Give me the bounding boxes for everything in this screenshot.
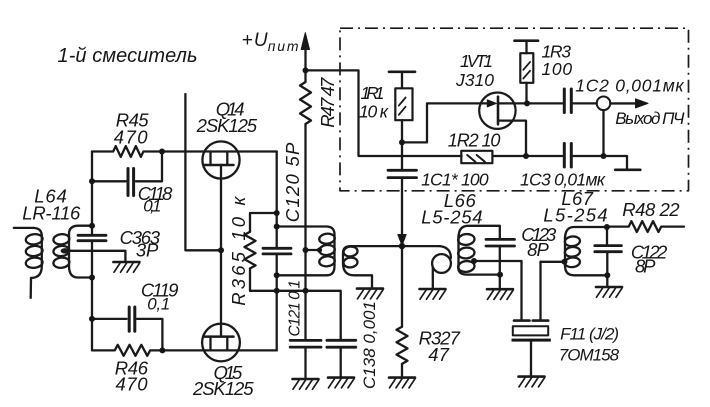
svg-text:1-й смеситель: 1-й смеситель (58, 45, 198, 67)
capacitor 1C2 (564, 89, 596, 113)
wire R47 bottom down to C121 (304, 124, 306, 340)
inductor L66 link winding (432, 246, 451, 289)
svg-text:8 P: 8 P (527, 239, 549, 260)
wire gate bus Q14 gate to Q15 gate (220, 165, 222, 337)
svg-text:2SK125: 2SK125 (196, 115, 258, 136)
transformer T1 left winding (319, 227, 336, 276)
inductor L64 primary winding (25, 228, 43, 298)
ground (C138) (328, 378, 354, 388)
wire drain column lower part to Q15 drain (276, 254, 278, 350)
svg-text:R48 22: R48 22 (622, 199, 680, 220)
svg-text:LR-116: LR-116 (22, 203, 81, 224)
capacitor C363 (78, 235, 106, 240)
svg-text:+U: +U (242, 30, 268, 51)
svg-text:1C2 0,001мк: 1C2 0,001мк (575, 76, 684, 96)
ground (L66/C123) (487, 289, 513, 299)
svg-text:100: 100 (542, 59, 573, 79)
wire R46/C119 node to Q15 source and drain corner (162, 349, 276, 351)
svg-text:470: 470 (114, 127, 148, 148)
capacitor 1C1 (388, 170, 417, 237)
resistor R327 (397, 246, 408, 378)
svg-text:1VT1: 1VT1 (460, 51, 493, 71)
svg-text:10 к: 10 к (359, 102, 389, 122)
svg-text:1R1: 1R1 (361, 83, 385, 103)
dash-dot modification box (340, 28, 689, 191)
capacitor C121 (290, 340, 321, 379)
svg-text:F11 (J/2): F11 (J/2) (560, 325, 619, 344)
wire input stub to L64 primary top (14, 227, 34, 229)
svg-text:0,1: 0,1 (143, 197, 161, 216)
svg-text:1R2 10: 1R2 10 (448, 131, 501, 151)
ground (F11) (519, 377, 545, 387)
svg-text:3P: 3P (136, 240, 159, 261)
svg-text:7OM158: 7OM158 (559, 346, 620, 365)
chassis bar (1R3 top) (515, 39, 539, 42)
svg-text:1C1* 100: 1C1* 100 (421, 170, 489, 190)
ground (L67/C122) (596, 287, 622, 297)
svg-text:470: 470 (116, 374, 149, 395)
capacitor C120 (263, 248, 291, 254)
capacitor 1C3 (564, 144, 603, 168)
wire R45/C118 node to Q14 source and through to drain corner (162, 150, 277, 152)
wire left column node A to R45 (91, 152, 93, 236)
svg-text:J310: J310 (455, 70, 494, 90)
transistor Q15 (2SK125) (202, 324, 240, 362)
wire rail y291 R365 bottom to C138 (250, 291, 341, 341)
output terminal circle (597, 97, 611, 111)
wire left column node B down to R46 (91, 241, 93, 351)
resistor 1R2 (461, 151, 562, 163)
resistor R365 10k (245, 213, 277, 291)
chassis bar (output return) (615, 168, 640, 171)
capacitor C119 (92, 307, 162, 350)
crystal filter F11 (512, 262, 551, 377)
svg-text:C121 0,1: C121 0,1 (286, 280, 303, 337)
ground (C121) (293, 379, 319, 389)
capacitor C138 (327, 340, 356, 377)
svg-text:L5-254: L5-254 (543, 205, 607, 226)
svg-text:R47 47: R47 47 (317, 77, 338, 128)
resistor R45 (92, 146, 162, 157)
transformer T1 right winding (343, 246, 372, 289)
wire output circle down to 1C3 node (602, 110, 604, 156)
svg-text:0,1: 0,1 (147, 295, 170, 314)
capacitor C118 (92, 152, 162, 196)
wire center tap feed (306, 249, 320, 251)
resistor 1R3 (520, 41, 533, 104)
wire rail drain bottom to transformer winding bottom (277, 274, 327, 276)
wire 1C3 node to chassis (604, 156, 628, 168)
wire L66 tap to F11 input (474, 261, 522, 320)
svg-text:47: 47 (428, 344, 449, 365)
output arrow (Vykhod PCh) (610, 99, 648, 108)
wire 1R1/gate node branch (402, 103, 490, 142)
wire +Upit into box to 1R2 rail (306, 70, 462, 156)
capacitor C122 (595, 227, 622, 287)
svg-text:C120 5P: C120 5P (282, 142, 303, 222)
resistor R46 (92, 345, 162, 356)
transistor 1VT1 (J310) (479, 93, 526, 157)
wire L67 tap to F11 (541, 261, 565, 263)
ground (L66 link) (420, 289, 446, 299)
wire Q14 drain column x=276.7 (276, 152, 278, 249)
capacitor C123 (486, 239, 515, 289)
+Upit supply arrow (301, 33, 309, 71)
svg-text:8 P: 8 P (635, 256, 656, 277)
wire rail drain top to transformer winding top (277, 225, 327, 227)
svg-text:2SK125: 2SK125 (192, 378, 254, 399)
resistor 1R1 (395, 72, 412, 171)
svg-text:L5-254: L5-254 (421, 207, 482, 228)
arrow 1C1 into injection node (398, 235, 406, 246)
tap arrow on L64 secondary (61, 248, 70, 253)
resistor R47 (300, 70, 311, 124)
wire L64 secondary tap to ground (67, 251, 125, 262)
transistor Q14 (2SK125) (202, 141, 239, 178)
svg-text:Выход ПЧ: Выход ПЧ (615, 109, 685, 128)
ground (T1 right winding) (357, 289, 383, 299)
svg-text:C138 0,001: C138 0,001 (360, 301, 379, 389)
wire gate bias stub (185, 94, 221, 250)
wire T1 secondary to injection node to L66 link (350, 245, 440, 247)
inductor L67 winding (564, 227, 607, 275)
svg-text:1C3 0,01мк: 1C3 0,01мк (520, 170, 606, 190)
svg-text:пит: пит (268, 38, 299, 54)
chassis bar (1R1 top) (389, 70, 415, 73)
resistor R48 (607, 221, 684, 232)
wire 1VT1 drain rail to 1C2 (498, 102, 562, 104)
inductor L66 main winding (458, 226, 500, 275)
inductor L64 secondary winding (53, 226, 92, 278)
ground (L64 tap) (113, 262, 139, 272)
ground (R327) (389, 378, 415, 388)
